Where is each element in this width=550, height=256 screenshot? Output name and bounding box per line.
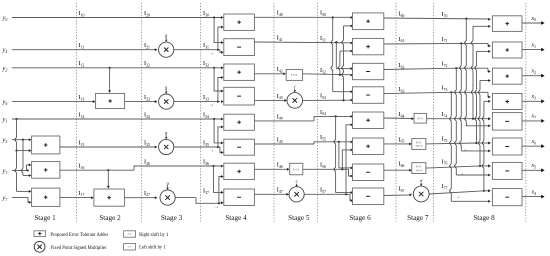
wire rail I63 stage7-8: [384, 91, 491, 98]
label I12: [79, 60, 85, 67]
wire rail I64b stage7-8: [427, 117, 491, 120]
label -1 stage8: [461, 172, 464, 176]
wire y1 vertical lower: [15, 151, 17, 192]
stage4 subtractor 6: [224, 139, 255, 155]
wire stub S1C in1: [17, 190, 32, 193]
stage4 subtractor 4: [224, 87, 255, 105]
output x6: [522, 139, 545, 148]
input label y4: [2, 47, 8, 55]
wire drop stage2 adder1 top: [108, 68, 111, 93]
label I37: [203, 187, 209, 194]
stage8 adder 3: [492, 68, 522, 84]
wire stage8 row5 into box6: [488, 142, 491, 145]
label I26: [144, 158, 150, 165]
label I16: [79, 163, 85, 170]
wire rail I47 stage5 into M6: [254, 193, 289, 196]
svg-text:Left shift by 1: Left shift by 1: [139, 246, 166, 251]
wire riser stage4 pair4 none: [0, 0, 1, 1]
wire rail I66b stage7-8: [426, 164, 491, 168]
label -1 stage4 pair4: [215, 205, 218, 209]
stage8 adder 1: [492, 16, 522, 32]
svg-text:>>: >>: [128, 232, 132, 236]
wire rail y4 M1-to-stage4: [174, 49, 224, 54]
label I63: [399, 86, 405, 93]
adder S1-B: [32, 162, 60, 179]
wire stage8 rise row4: [471, 25, 491, 119]
output x4: [522, 189, 545, 198]
stage separator dotted line 2: [141, 3, 143, 222]
stage separator dotted line 5: [317, 3, 319, 222]
label I40: [277, 10, 283, 17]
wire rail I17b stage2-3: [124, 196, 157, 199]
input label y0: [2, 15, 8, 23]
wire stage8 row4 into box5: [488, 117, 491, 120]
wire stage8 drop row1: [459, 43, 490, 152]
svg-text:Stage 4: Stage 4: [225, 214, 247, 222]
wire rail y4 to multiplier M1: [12, 48, 157, 51]
caption Stage 5: [288, 214, 310, 222]
wire rail I27 step-down: [175, 198, 224, 205]
label I33: [203, 94, 209, 101]
wire rail y1 stages1-4: [12, 118, 224, 121]
label I60: [399, 10, 405, 17]
stage8 adder 4: [492, 94, 522, 110]
caption Stage 1: [34, 214, 56, 222]
wire rail I41 stage5: [254, 41, 353, 44]
stage6 subtractor 3: [353, 63, 384, 79]
label I32: [203, 60, 209, 67]
label I76: [442, 158, 448, 165]
wire riser stage6 B6in2: [342, 148, 353, 169]
label I42: [277, 66, 283, 73]
svg-text:Stage 7: Stage 7: [407, 214, 429, 222]
wire drop stage4 pair2: [214, 68, 224, 93]
caption Stage 2: [99, 214, 121, 222]
shift box stage5 row I42: [286, 69, 302, 80]
output x2: [522, 69, 545, 78]
label I61: [399, 36, 405, 43]
stage4 adder 7: [224, 163, 255, 179]
wire stage8 rise row5: [475, 50, 491, 143]
label I17: [79, 190, 85, 197]
multiplier stage3 at y197.6: [160, 180, 175, 205]
adder S1-C: [32, 188, 60, 206]
svg-text:-1: -1: [457, 195, 460, 199]
label I77: [442, 183, 448, 190]
stage8 subtractor 6: [492, 138, 522, 155]
label I47: [277, 187, 283, 194]
legend multiplier symbol: [34, 241, 45, 252]
wire riser stage4 pair4: [219, 175, 224, 203]
wire rail I60 stage7-8: [384, 18, 491, 21]
output x5: [522, 163, 545, 172]
svg-text:-1: -1: [210, 149, 213, 153]
caption Stage 7: [407, 214, 429, 222]
wire drop stage6 I50-B4: [331, 18, 353, 94]
wire stage8 row7 into box8: [488, 189, 491, 192]
svg-text:e: e: [296, 179, 298, 184]
stage6 subtractor 8: [353, 188, 384, 205]
wire drop stage6 I54-B8: [334, 116, 354, 194]
label -1 stage8: [464, 148, 467, 152]
wire rail I64 stage7: [384, 117, 414, 120]
wire rail y2 stages1-4: [12, 66, 224, 69]
stage4 subtractor 8: [224, 189, 255, 206]
legend left-shift symbol: [124, 244, 136, 250]
multiplier stage5 row I43: [287, 84, 303, 108]
label I30: [203, 10, 209, 17]
wire stage8 drop row3: [449, 92, 490, 202]
label -1 stage8: [464, 123, 467, 127]
wire rail y6 stage2-3: [125, 100, 158, 103]
wire rail I45 stage5: [254, 140, 353, 144]
wire rail I67b stage7-8: [429, 189, 491, 194]
wire rail I61 stage7-8: [384, 42, 491, 47]
wire rail I66 stage7: [384, 169, 412, 172]
shift box stage7 row I66: [412, 163, 426, 174]
svg-text:Right shift by 1: Right shift by 1: [139, 233, 169, 238]
wire drop stage4 pair4: [214, 166, 224, 194]
stage4 adder 3: [224, 64, 255, 80]
label I74: [442, 111, 448, 118]
svg-text:Stage 5: Stage 5: [288, 214, 310, 222]
stage6 adder 6: [353, 138, 384, 155]
multiplier stage3 at y49.7: [159, 33, 174, 58]
svg-text:I >>1: I >>1: [291, 73, 298, 77]
label I64: [399, 111, 405, 118]
svg-text:Proposed Error Tolerant Adder: Proposed Error Tolerant Adder: [50, 233, 108, 238]
stage separator dotted line 4: [273, 3, 275, 222]
label I27: [144, 190, 150, 197]
label -1 stage4 pair1: [210, 51, 213, 55]
wire stage8 drop row2: [454, 68, 490, 176]
wire rail I42b: [303, 74, 354, 77]
legend adder text: [50, 233, 108, 238]
stage8 subtractor 5: [492, 113, 522, 131]
stage separator dotted line 7: [433, 3, 435, 222]
wire riser stage4 pair3: [218, 125, 224, 147]
svg-text:I>>1: I>>1: [416, 141, 422, 144]
label I13: [79, 94, 85, 101]
wire drop stage6 I51-B3: [335, 41, 353, 70]
caption Stage 8: [473, 214, 495, 222]
svg-text:-1: -1: [210, 51, 213, 55]
wire rail I65 stage7: [384, 142, 412, 145]
wire rail I15 M3-to-stage4: [174, 146, 224, 154]
output x7: [522, 114, 545, 123]
label I43: [277, 93, 283, 100]
wire rail I42 stage5: [254, 72, 286, 75]
wire drop stage4 pair1: [214, 18, 224, 45]
svg-text:I>>1: I>>1: [416, 166, 422, 169]
svg-text:Stage 3: Stage 3: [161, 214, 183, 222]
wire riser stage4 pair1: [218, 26, 224, 50]
wire stub S1B in2: [23, 174, 31, 177]
label I44: [277, 113, 283, 120]
label -1 stage8: [457, 195, 460, 199]
label I11: [79, 42, 85, 49]
label I45: [277, 136, 283, 143]
wire y1 vertical stage1: [15, 119, 18, 152]
input label y6: [2, 99, 8, 107]
label I72: [442, 61, 448, 68]
legend left-shift text: [139, 246, 166, 251]
svg-text:Stage 6: Stage 6: [349, 214, 371, 222]
wire rail I17 stage2: [60, 196, 94, 199]
wire rail y0 stages1-4: [12, 16, 224, 19]
svg-text:-1: -1: [464, 148, 467, 152]
label I23: [144, 94, 150, 101]
stage separator dotted line 3: [200, 3, 202, 222]
adder S2-A: [96, 93, 125, 108]
svg-text:Stage 1: Stage 1: [34, 214, 56, 222]
label I50: [320, 10, 326, 17]
wire rail I26 step-up: [134, 165, 224, 171]
label I54: [320, 109, 326, 116]
wire riser stage6 I53-B1: [342, 24, 354, 101]
output x3: [522, 94, 545, 103]
adder S2-B: [94, 189, 125, 206]
label -1 stage4 pair3: [210, 149, 213, 153]
wire riser stage6 B5in2: [346, 123, 353, 194]
label I70: [442, 11, 448, 18]
stage6 adder 5: [353, 112, 384, 129]
wire rail I40 stage5: [254, 16, 353, 19]
wire rail I43 stage5 into M5: [254, 99, 287, 102]
caption Stage 6: [349, 214, 371, 222]
wire stage8 rise row6: [478, 79, 491, 166]
label I67: [399, 185, 405, 192]
label I36: [203, 158, 209, 165]
label -1 stage4 pair2: [210, 103, 213, 107]
shift box stage5 row I46: [290, 163, 303, 175]
wire drop stage6 I55-B7: [339, 142, 353, 170]
wire rail I46 stage5: [254, 168, 289, 171]
stage4 adder 5: [224, 114, 255, 130]
label I22: [144, 60, 150, 67]
label I57: [320, 187, 326, 194]
svg-text:-1: -1: [464, 123, 467, 127]
svg-text:-1: -1: [210, 103, 213, 107]
wire rail I15 stage2-3: [60, 146, 157, 149]
wire stage8 rise row7: [482, 100, 491, 191]
wire drop stage2 adder2 top: [107, 170, 110, 188]
output x0: [522, 16, 545, 25]
stage6 adder 1: [353, 13, 384, 30]
stage6 subtractor 7: [353, 164, 384, 181]
adder S1-A: [32, 136, 60, 154]
input label y7: [2, 195, 9, 203]
stage8 adder 2: [492, 42, 522, 58]
label I73: [442, 85, 448, 92]
label I66: [399, 161, 405, 168]
wire rail I46b: [303, 168, 353, 177]
svg-text:-1: -1: [215, 205, 218, 209]
caption Stage 4: [225, 214, 247, 222]
wire riser stage4 pair2: [218, 76, 224, 102]
multiplier stage3 at y101.6: [159, 84, 174, 109]
input label y3: [2, 168, 8, 176]
label I24: [144, 111, 150, 118]
stage separator dotted line 6: [395, 3, 397, 222]
svg-text:-1: -1: [461, 172, 464, 176]
stage separator dotted line 1: [76, 3, 78, 222]
legend adder symbol: [34, 231, 46, 237]
label I20: [144, 10, 150, 17]
wire rail I43b: [303, 99, 354, 102]
label I34: [203, 111, 209, 118]
label I65: [399, 136, 405, 143]
wire riser stage6 I52-B2: [338, 50, 353, 76]
wire rail y6 M2-to-stage4: [174, 100, 224, 103]
wire rail I67 stage7 into M7: [384, 193, 412, 196]
label I14: [79, 111, 85, 118]
wire drop stage4 pair3: [214, 119, 224, 144]
label I25: [144, 139, 150, 146]
wire rail y7 into S1C: [12, 198, 31, 204]
shift box stage7 row I65: [412, 139, 426, 150]
label I21: [144, 42, 150, 49]
svg-text:I>>1: I>>1: [418, 118, 424, 121]
label I46: [277, 162, 283, 169]
wire stage8 row6 into box7: [488, 164, 491, 167]
label I75: [442, 135, 448, 142]
wire rail y5 into S1A: [12, 138, 31, 141]
wire y5 vertical stage1: [21, 140, 23, 176]
legend right-shift text: [139, 233, 169, 238]
stage4 subtractor 2: [224, 39, 255, 56]
input label y5: [2, 137, 8, 145]
output x1: [522, 42, 545, 51]
label I35: [203, 139, 209, 146]
caption Stage 3: [161, 214, 183, 222]
stage separator dotted line 8: [525, 3, 527, 222]
stage4 adder 1: [224, 14, 255, 30]
wire rail I47b: [304, 193, 353, 202]
label I41: [277, 34, 283, 41]
svg-text:I >>1: I >>1: [293, 167, 300, 171]
svg-text:Stage 8: Stage 8: [473, 214, 495, 222]
multiplier stage5 row I47: [289, 179, 304, 202]
label I10: [79, 10, 85, 17]
stage8 subtractor 7: [492, 162, 522, 179]
wire stub S1A in2: [17, 149, 32, 152]
wire stage8 drop row0: [464, 19, 490, 128]
wire rail I62 stage7-8: [384, 67, 491, 73]
legend multiplier text: [50, 246, 107, 251]
svg-text:<<: <<: [128, 245, 132, 249]
wire rail y6 to stage2 adder1: [12, 100, 95, 103]
svg-text:Fixed Point Signed Multiplier: Fixed Point Signed Multiplier: [50, 246, 107, 251]
wire rail y3 into S1B: [12, 163, 31, 171]
svg-text:+I>>3: +I>>3: [415, 169, 422, 172]
label I31: [203, 42, 209, 49]
input label y2: [2, 65, 8, 73]
label I62: [399, 62, 405, 69]
label I55: [320, 134, 326, 141]
stage8 subtractor 8: [492, 189, 522, 206]
legend right-shift symbol: [124, 231, 136, 237]
stage6 subtractor 4: [353, 87, 384, 104]
wire rail I65b stage7-8: [426, 142, 491, 145]
stage6 adder 2: [353, 38, 384, 54]
label I56: [320, 162, 326, 169]
label I71: [442, 36, 448, 43]
label I51: [320, 35, 326, 42]
multiplier stage3 at y147: [159, 130, 174, 155]
label I53: [320, 93, 326, 100]
wire rail I44 stage5: [254, 115, 353, 121]
label I52: [320, 67, 326, 74]
input label y1: [2, 116, 8, 124]
multiplier stage7 row I67: [413, 178, 429, 202]
label I15: [79, 139, 85, 146]
svg-text:+I>>3: +I>>3: [415, 145, 422, 148]
svg-text:Stage 2: Stage 2: [99, 214, 121, 222]
shift box stage7 row I64: [414, 113, 427, 123]
wire rail I16 stage2: [60, 169, 134, 171]
